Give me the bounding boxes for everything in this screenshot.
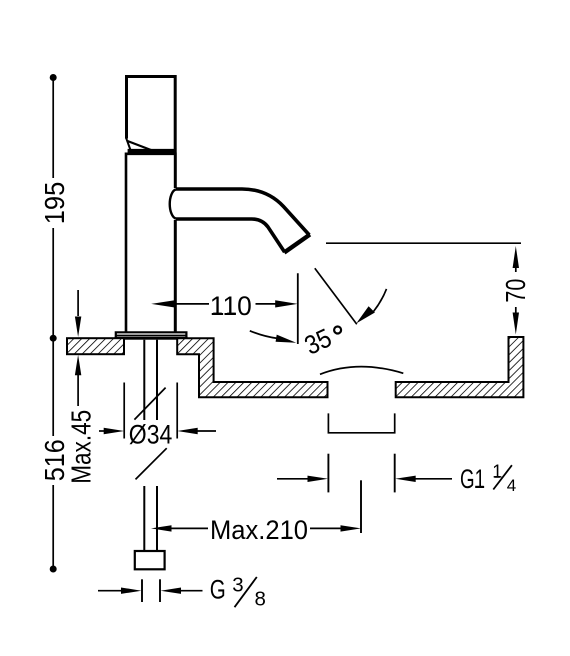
drain hole bracket — [328, 413, 394, 432]
G 3/8 right tick — [159, 579, 161, 602]
G 3/8 left tick — [141, 579, 143, 602]
G1 1/4 left tick — [327, 454, 329, 493]
svg-text:Ø34: Ø34 — [129, 420, 173, 450]
handle lever shallow diagonal — [128, 141, 152, 150]
countertop stepped slab with basin bottom — [177, 338, 327, 397]
G1 1/4 right arrow — [413, 478, 452, 480]
countertop left slab — [67, 338, 124, 354]
dia 34 left arrow — [99, 430, 106, 432]
spout-end vertical extension line — [297, 273, 299, 344]
Max.45 dimension lower arrow — [77, 374, 79, 406]
curved arrow to slope line — [374, 289, 387, 312]
dia 34 right extension line — [176, 383, 178, 439]
handle bottom-left steep cut line — [126, 138, 130, 150]
drain centre line — [360, 480, 362, 533]
faucet body — [126, 154, 175, 332]
label 70 — [500, 279, 531, 303]
svg-text:Max.45: Max.45 — [66, 410, 97, 484]
dimension 70 bottom arrow — [515, 307, 517, 314]
dia 34 right arrow — [196, 430, 216, 432]
svg-text:3: 3 — [232, 574, 243, 597]
flange bottom thick bar — [115, 337, 188, 340]
curved arrow to spout-end line — [250, 331, 278, 339]
Max.45 dimension upper arrow — [77, 290, 79, 316]
spout inner bottom line — [176, 219, 285, 252]
label 195 — [39, 182, 70, 225]
dimension 195/516 vertical line — [52, 78, 54, 570]
G1 1/4 left arrow — [277, 478, 310, 480]
svg-text:8: 8 — [255, 588, 266, 611]
faucet handle — [127, 77, 176, 150]
spout left rounded cap — [170, 190, 176, 219]
spout outer top line — [176, 189, 310, 235]
upper pipe break mark — [134, 388, 165, 420]
dimension 70 top arrow — [513, 246, 519, 268]
flange inner line — [116, 334, 187, 336]
G 3/8 right arrow — [180, 590, 203, 592]
Max.210 dimension — [151, 525, 172, 531]
svg-text:Max.210: Max.210 — [210, 515, 308, 545]
dot top of 195 — [50, 74, 57, 81]
supply pipe left line lower — [143, 486, 145, 551]
svg-text:G1: G1 — [460, 464, 485, 494]
supply pipe left line upper — [143, 340, 145, 420]
35 degree slope line — [315, 268, 357, 324]
base flange — [116, 332, 187, 338]
spout end face — [284, 235, 310, 253]
label 516 — [39, 439, 70, 481]
countertop right slab with riser — [396, 337, 524, 397]
label Max.45 — [66, 410, 97, 484]
dimension 110 line — [151, 300, 175, 307]
body right edge lower segment — [174, 220, 177, 332]
G1 1/4 right tick — [394, 454, 396, 493]
svg-text:70: 70 — [500, 279, 531, 303]
svg-text:195: 195 — [39, 182, 70, 225]
dot bottom of 516 — [50, 566, 57, 573]
supply pipe right line upper — [156, 340, 158, 420]
supply pipe right line lower — [156, 486, 158, 551]
body right edge upper segment — [174, 153, 177, 189]
lower pipe break mark — [136, 448, 167, 479]
dot mid (countertop level) — [50, 335, 57, 342]
basin bottom arc over drain — [320, 367, 403, 375]
G 3/8 left arrow — [98, 590, 122, 592]
svg-text:110: 110 — [210, 291, 252, 321]
dia 34 left extension line — [123, 383, 125, 439]
svg-text:4: 4 — [507, 476, 516, 495]
pipe end block — [135, 551, 165, 569]
svg-text:G: G — [210, 575, 226, 605]
handle/body thick gap bar — [128, 149, 177, 153]
spout height reference line — [326, 242, 521, 244]
